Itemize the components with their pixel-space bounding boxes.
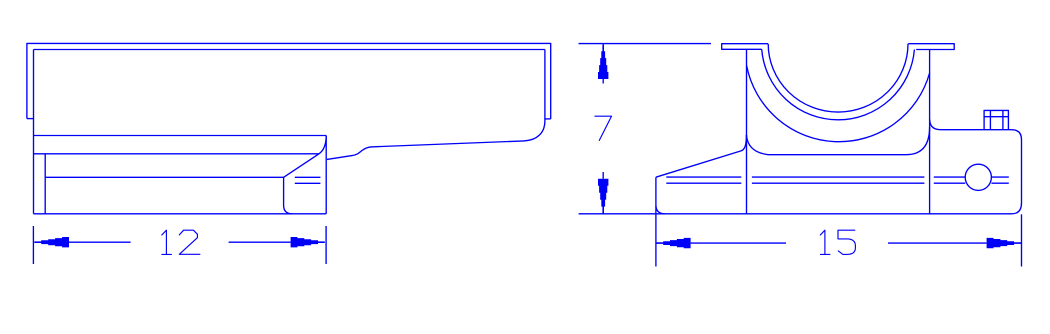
right view: lower line segment d (992, 182, 1009, 184)
dim 7: top arrow (597, 44, 610, 79)
left view: slot edge with fillet (284, 177, 293, 214)
right view: stud outline (984, 110, 1008, 129)
dim 12: right extension line (325, 226, 327, 264)
right view: base left edge with fillet (656, 177, 665, 214)
dim 15: left dim line (691, 242, 786, 244)
left view: body right edge (325, 136, 327, 214)
dim 7: digit 7 (595, 116, 612, 140)
right view: upper line segment b (752, 176, 925, 178)
right view: inner semicircle notch (768, 44, 908, 112)
right view: extension top edge (930, 120, 1012, 130)
dim 15: left extension line (655, 206, 657, 267)
left view: body top edge (34, 135, 327, 137)
left view: inner vertical edge (44, 154, 46, 214)
dim 7: bottom arrow (597, 179, 610, 214)
dim 15: digit 1 (820, 230, 830, 254)
right view: upper line segment d (992, 176, 1009, 178)
right view: left gusset diagonal to cusp (656, 135, 747, 177)
dim 15: left arrow (656, 237, 690, 250)
left view: plate inner top edge (34, 49, 545, 51)
right view: stud inner vertical 1 (989, 110, 991, 129)
dim 15: digit 5 (838, 230, 855, 254)
left view: mid horizontal edge (45, 176, 283, 178)
right view: third shallow arc (747, 66, 930, 142)
right view: left rib vertical (746, 49, 748, 214)
right view: hole circle (965, 164, 991, 190)
right view: upper line segment a (666, 176, 741, 178)
left view: plate inner right edge (544, 50, 546, 122)
dim 15: right dim line (888, 242, 987, 244)
left view: top plate outer edge (27, 43, 551, 119)
right view: lower line segment a (666, 182, 741, 184)
left view: body left edge (33, 50, 35, 214)
left view: double line lower (295, 182, 321, 184)
right view: right flange (908, 44, 954, 50)
right view: left flange (722, 44, 768, 50)
dim 7: top extension line (579, 43, 712, 45)
dim 12: digit 1 (162, 230, 172, 254)
left view: plate right end step (545, 118, 551, 120)
right view: base bottom edge (665, 213, 1012, 215)
right view: right rib vertical (929, 50, 931, 214)
right view: outer rib arc (762, 49, 915, 120)
right view: bottom right fillet and right edge (1012, 130, 1022, 214)
left view: plate bottom contour with fillet and s-curve (327, 121, 545, 159)
dim 12: right dim line (229, 241, 291, 243)
left view: chamfer diagonal with corner curve (284, 136, 327, 178)
right view: stud inner vertical 2 (1002, 110, 1004, 129)
dim 7: top stub (602, 79, 604, 84)
right view: lower line segment b (752, 182, 925, 184)
right view: stud inner horizontal (984, 116, 1008, 118)
dim 12: right arrow (291, 236, 325, 249)
left view: body second edge (34, 153, 319, 155)
dim 15: right extension line (1021, 214, 1023, 266)
right view: lower line segment c (934, 182, 965, 184)
left view: plate left end step (27, 118, 34, 120)
dim 12: left dim line (69, 241, 131, 243)
right view: upper line segment c (934, 176, 965, 178)
dim 12: left extension line (32, 226, 34, 264)
dim 12: left arrow (34, 236, 69, 249)
right view: cusp to body line (746, 127, 929, 155)
dim 7: bottom extension line (579, 213, 665, 215)
dim 15: right arrow (987, 237, 1021, 250)
left view: double line upper (295, 176, 321, 178)
dim 12: digit 2 (179, 230, 200, 254)
dim 7: bottom stub (602, 172, 604, 179)
left view: body bottom edge (34, 213, 327, 215)
